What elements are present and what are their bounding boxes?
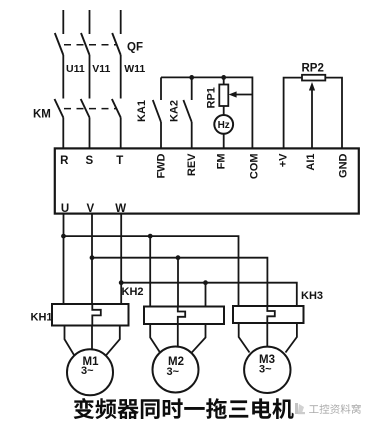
junction dot bus3 at W: [119, 280, 124, 285]
wire QF to KM pole3: [120, 55, 122, 99]
svg-text:V11: V11: [92, 63, 110, 75]
wire KH3 to M3 right: [286, 323, 297, 353]
svg-text:3~: 3~: [167, 366, 180, 378]
wire KH2 to M2 left: [150, 324, 160, 353]
wire V drop: [91, 214, 93, 304]
wire phase L3 feed: [120, 10, 122, 34]
potentiometer RP2: [284, 75, 342, 149]
svg-text:+V: +V: [278, 153, 290, 167]
svg-text:AI1: AI1: [305, 154, 317, 171]
wire bus V phase: [92, 258, 267, 306]
wire control bus to COM: [161, 77, 252, 148]
svg-text:KH2: KH2: [122, 286, 144, 298]
svg-text:W: W: [115, 203, 126, 215]
svg-text:REV: REV: [186, 153, 198, 176]
motor M3: [244, 347, 290, 393]
wire KH2 to M2 right: [192, 324, 206, 353]
wire drop KH2 pole2: [177, 258, 179, 307]
meter Hz: [214, 115, 233, 134]
svg-text:S: S: [85, 155, 93, 167]
wire W drop: [120, 214, 122, 304]
watermark text 工控资料窝: [309, 404, 361, 414]
thermal relay KH3: [233, 306, 304, 323]
junction dot bus1 at KH2: [148, 234, 153, 239]
caption 变频器同时一拖三电机: [74, 398, 294, 419]
svg-text:KA1: KA1: [136, 100, 148, 122]
svg-text:V: V: [86, 203, 94, 215]
svg-text:U11: U11: [66, 63, 85, 75]
svg-text:KH3: KH3: [301, 290, 323, 302]
wire KH1 to M1 mid: [91, 326, 93, 350]
svg-text:KA2: KA2: [169, 100, 181, 122]
junction dot RP1 top: [221, 75, 226, 80]
wire KH3 to M3 mid: [266, 323, 268, 347]
wire KM to S: [89, 118, 91, 149]
watermark logo: [295, 403, 305, 414]
wire bus U phase: [64, 236, 239, 306]
svg-text:KM: KM: [33, 109, 51, 121]
breaker QF: [55, 33, 121, 55]
wire KH2 to M2 mid: [177, 324, 179, 347]
svg-text:COM: COM: [249, 154, 261, 180]
potentiometer RP1: [219, 77, 228, 115]
svg-text:QF: QF: [127, 42, 143, 54]
wire KH1 to M1 right: [106, 326, 120, 356]
svg-text:KH1: KH1: [31, 312, 53, 324]
wire drop KH2 pole1: [149, 236, 151, 306]
junction dot bus2 at KH2: [176, 255, 181, 260]
svg-text:RP1: RP1: [206, 87, 218, 108]
svg-text:Hz: Hz: [218, 120, 230, 131]
wire KM to T: [120, 118, 122, 149]
svg-text:FM: FM: [215, 154, 227, 170]
wire bus W phase: [121, 283, 297, 306]
svg-text:U: U: [61, 203, 69, 215]
svg-text:3~: 3~: [81, 365, 94, 377]
thermal relay KH1: [52, 304, 129, 326]
wire KM to R: [62, 118, 64, 149]
wire U drop: [63, 214, 65, 304]
thermal relay KH2: [144, 307, 224, 325]
wire RP1 wiper to COM: [234, 94, 252, 96]
svg-text:GND: GND: [338, 153, 350, 178]
wire drop KH2 pole3: [205, 283, 207, 307]
contactor KM: [55, 99, 121, 118]
wire KH3 to M3 left: [239, 323, 250, 353]
arrowhead RP1 wiper: [229, 91, 237, 97]
svg-text:FWD: FWD: [155, 153, 167, 178]
motor M2: [153, 347, 199, 393]
junction dot bus2 at V: [90, 255, 95, 260]
wire QF to KM pole2: [89, 55, 91, 99]
junction dot bus3 at KH2: [203, 280, 208, 285]
relay contact KA1: [153, 77, 161, 148]
wire phase L2 feed: [89, 10, 91, 34]
svg-text:RP2: RP2: [302, 63, 324, 75]
wire phase L1 feed: [62, 10, 64, 34]
arrowhead RP2 wiper: [309, 82, 315, 91]
svg-text:W11: W11: [124, 63, 145, 75]
svg-text:T: T: [116, 155, 123, 167]
svg-text:3~: 3~: [259, 364, 272, 376]
wire Hz to FM: [223, 134, 225, 149]
svg-text:R: R: [60, 155, 69, 167]
wire RP2 wiper to AI1: [311, 90, 313, 148]
junction dot KA2 top: [189, 75, 194, 80]
junction dot bus1 at U: [61, 234, 66, 239]
wire KH1 to M1 left: [65, 326, 75, 356]
motor M1: [67, 349, 113, 395]
wire QF to KM pole1: [62, 55, 64, 99]
relay contact KA2: [183, 77, 191, 148]
inverter box U1: [55, 148, 359, 213]
